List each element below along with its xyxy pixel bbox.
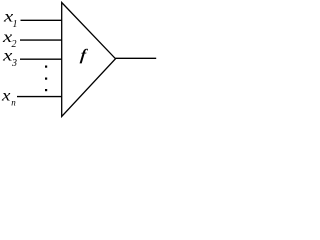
- svg-text:1: 1: [13, 19, 18, 30]
- wire input 1: [21, 19, 63, 21]
- vertical ellipsis dots: [45, 66, 47, 68]
- svg-text:3: 3: [11, 58, 17, 69]
- wire input 2: [20, 39, 62, 41]
- triangle function block: [62, 3, 116, 117]
- svg-text:x: x: [1, 88, 11, 105]
- wire input 3: [20, 58, 62, 60]
- svg-text:n: n: [11, 98, 16, 108]
- wire output: [116, 57, 157, 59]
- wire input n: [17, 96, 62, 98]
- svg-text:x: x: [2, 48, 12, 65]
